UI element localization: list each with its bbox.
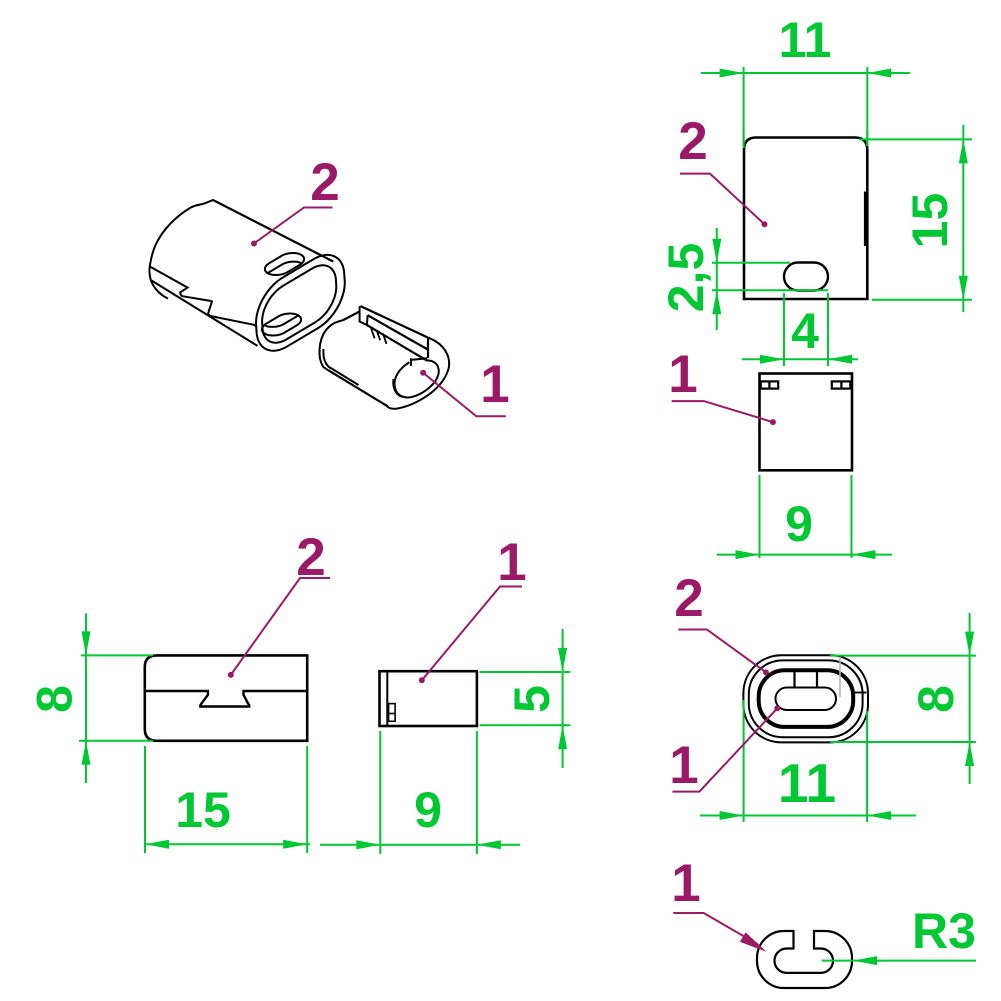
svg-text:R3: R3 xyxy=(912,903,976,959)
iso part1 cap-to-slot line xyxy=(343,312,359,320)
top view second stadium xyxy=(749,660,863,737)
iso part2 front inner rim xyxy=(262,265,336,342)
part 1 notch left xyxy=(761,381,779,388)
iso part1 far cap outline xyxy=(320,320,344,370)
iso part1 front outer C xyxy=(387,338,449,409)
iso part2 top hole xyxy=(265,253,304,275)
dim 15 right xyxy=(859,138,972,140)
iso part1 bar inner edge xyxy=(368,315,429,350)
svg-text:15: 15 xyxy=(902,193,958,249)
iso part1 far cap inner wall arc xyxy=(323,349,332,369)
dim 8 top view xyxy=(830,655,976,657)
dim 11 top xyxy=(743,130,745,148)
part 1 front view body xyxy=(760,374,853,471)
iso part1 bar lower edge xyxy=(367,325,426,360)
iso part2 bottom silhouette xyxy=(152,281,258,346)
dim R3 xyxy=(822,960,976,962)
svg-text:1: 1 xyxy=(497,533,526,592)
iso part1 slot far step xyxy=(360,306,368,325)
top view slot walls xyxy=(793,672,795,689)
dim 2,5 xyxy=(712,262,790,264)
svg-text:9: 9 xyxy=(414,782,442,838)
top view gray hidden line xyxy=(839,657,841,697)
svg-text:11: 11 xyxy=(779,12,832,68)
iso part2 front outer rim xyxy=(256,255,345,351)
iso part2 far cap outline xyxy=(149,200,213,299)
top view seam line xyxy=(852,692,867,694)
iso part1 slot near wall vertical xyxy=(410,358,412,366)
top view outer stadium part 2 xyxy=(743,655,868,742)
iso part1 bar top edge xyxy=(361,306,429,338)
C profile part 1 xyxy=(757,931,852,988)
svg-text:1: 1 xyxy=(669,736,698,795)
part 1 notch right xyxy=(832,381,851,388)
svg-text:5: 5 xyxy=(504,685,560,713)
svg-text:2: 2 xyxy=(678,112,707,171)
top view inner hole xyxy=(776,688,837,711)
dim 4 xyxy=(783,293,785,366)
svg-text:9: 9 xyxy=(785,496,813,552)
part 1 side view body xyxy=(380,671,477,726)
svg-text:1: 1 xyxy=(480,355,509,414)
iso part1 hole top edge xyxy=(411,358,427,360)
svg-text:2: 2 xyxy=(310,153,339,212)
dim 11 top view xyxy=(743,700,745,822)
iso part1 slot far wall vertical xyxy=(427,338,429,358)
part 1 side small detail xyxy=(389,704,396,722)
part 2 oval hole 4x2.5 xyxy=(784,263,828,291)
dim 9 TR xyxy=(759,475,761,558)
svg-text:2,5: 2,5 xyxy=(658,243,714,313)
iso part1 bottom inner line xyxy=(332,369,359,385)
part 2 front view body xyxy=(744,138,867,300)
part 2 seam line right edge xyxy=(864,192,866,247)
svg-text:11: 11 xyxy=(778,752,836,814)
dim 15 bottom xyxy=(144,746,146,853)
dim 5 xyxy=(480,671,571,673)
part 2 side view slot line with dovetail xyxy=(145,691,307,707)
top view part 1 thick stadium xyxy=(759,670,854,727)
iso part1 bottom silhouette xyxy=(328,370,387,406)
svg-text:2: 2 xyxy=(674,569,703,628)
iso part2 slot zigzag xyxy=(150,267,256,328)
dim 9 BL xyxy=(379,731,381,854)
iso part1 hole depth arc xyxy=(393,379,402,397)
svg-text:4: 4 xyxy=(791,303,819,359)
dim 8 left xyxy=(81,654,153,656)
svg-text:8: 8 xyxy=(908,685,964,713)
svg-text:15: 15 xyxy=(175,782,231,838)
part 2 side view body xyxy=(145,655,307,740)
iso part2 top silhouette xyxy=(213,200,333,262)
svg-text:1: 1 xyxy=(671,854,700,913)
iso part1 front hole xyxy=(394,360,438,397)
svg-text:1: 1 xyxy=(668,345,697,404)
iso part1 teeth xyxy=(371,329,386,344)
iso part2 bottom hole xyxy=(262,314,301,336)
svg-text:8: 8 xyxy=(27,685,83,713)
